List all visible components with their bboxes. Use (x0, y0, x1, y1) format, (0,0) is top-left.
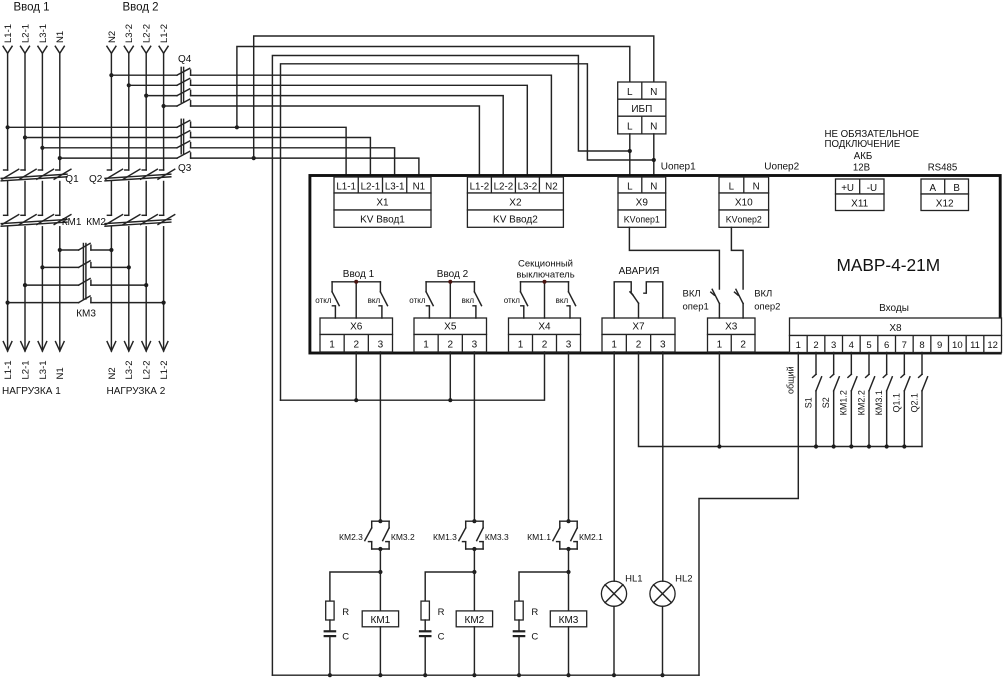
wire X5-2 drop (449, 352, 451, 400)
svg-text:A: A (930, 183, 937, 194)
wire Uoper-L riser (rail to X9-L) (272, 56, 629, 676)
svg-text:-U: -U (867, 183, 877, 194)
svg-text:R: R (342, 607, 349, 618)
switch Q4 pole 2 blade (177, 79, 190, 86)
switch VKL oper1 blade (712, 289, 719, 303)
svg-text:N2: N2 (107, 367, 118, 379)
svg-text:Q2: Q2 (89, 174, 103, 185)
switch Q4 pole 4 fixed contact (190, 101, 192, 106)
contactor KM3 pole 4 blade (79, 296, 91, 303)
lamp HL1 (601, 581, 626, 606)
switch S1 lower lead (815, 391, 817, 447)
junction L1-1 tap to Q3 (6, 125, 10, 129)
junction S2 / bus446 (832, 444, 836, 448)
wire interlock to coil КМ2 tee (473, 549, 475, 572)
svg-text:1: 1 (717, 339, 723, 350)
wire Q2 pole N2 to KM2 (110, 182, 112, 216)
svg-text:Ввод 2: Ввод 2 (122, 2, 158, 14)
switch Q3 pole 1 fixed contact (190, 122, 192, 127)
feeder arrow L1-2 (159, 46, 168, 53)
contact КМ1.3 blade (459, 528, 466, 541)
svg-text:L2-2: L2-2 (142, 360, 153, 379)
junction L3-2 tap to Q4 (127, 83, 131, 87)
svg-text:L3-2: L3-2 (518, 181, 538, 192)
svg-text:4: 4 (849, 340, 854, 351)
contact КМ2.1 seat (574, 541, 577, 543)
wire KM3 row 2 to bus2 (91, 266, 129, 268)
wire feeder N2 down to Q2 (110, 53, 112, 170)
switch S1 blade (816, 377, 822, 391)
junction interlock bottom КМ3.3 (472, 547, 476, 551)
selector Vvod2 common dot (448, 280, 452, 284)
breaker Q2 linkage (105, 174, 171, 178)
switch Q3 pole 2 fixed contact (190, 132, 192, 137)
wire X-3 drop to interlock КМ1.3/КМ3.3 (473, 352, 475, 521)
breaker Q2 poles (107, 169, 111, 171)
junction coil КМ2 / rail (472, 673, 476, 677)
wire tee to RC branch КМ1 (330, 572, 381, 601)
svg-text:КМ3: КМ3 (559, 615, 579, 626)
svg-text:вкл: вкл (368, 296, 381, 305)
svg-text:L: L (627, 181, 633, 192)
svg-text:Q1.1: Q1.1 (892, 393, 902, 413)
svg-text:N1: N1 (55, 367, 66, 379)
svg-text:откл: откл (315, 296, 332, 305)
svg-text:12В: 12В (853, 162, 870, 173)
svg-text:RS485: RS485 (928, 162, 958, 173)
wire N1 tap to Q3 pole 4 (60, 157, 177, 159)
switch Q3 pole 1 blade (177, 121, 190, 128)
wire R to C (КМ3) (518, 620, 520, 630)
wire interlock to coil КМ1 tee (379, 549, 381, 572)
svg-text:вкл: вкл (462, 296, 475, 305)
svg-text:КМ3: КМ3 (76, 309, 96, 320)
switch Q2.1 upper lead (921, 353, 923, 375)
coil КМ1 (362, 611, 398, 627)
svg-text:X7: X7 (632, 322, 645, 333)
junction interlock top КМ1.1 (566, 519, 570, 523)
switch Q1.1 blade (904, 377, 910, 391)
svg-text:L3-1: L3-1 (38, 360, 49, 379)
svg-text:L1-1: L1-1 (336, 181, 356, 192)
svg-text:ПОДКЛЮЧЕНИЕ: ПОДКЛЮЧЕНИЕ (825, 139, 901, 150)
wire Q1 pole N1 to KM1 (59, 182, 61, 216)
svg-text:L2-1: L2-1 (361, 181, 381, 192)
svg-text:выключатель: выключатель (516, 269, 574, 280)
svg-text:Q1: Q1 (65, 174, 79, 185)
wire C to rail (КМ1) (329, 637, 331, 675)
svg-text:N: N (753, 181, 760, 192)
junction interlock bottom КМ3.2 (378, 547, 382, 551)
svg-text:6: 6 (884, 340, 889, 351)
svg-text:11: 11 (970, 340, 980, 351)
junction КМ2.2 / bus446 (867, 444, 871, 448)
junction Q3 out N1 / UPS-N riser (252, 156, 256, 160)
junction RC / rail (КМ2) (423, 673, 427, 677)
wire X4-2 drop + common bus (281, 352, 545, 400)
switch Q4 pole 2 fixed contact (190, 80, 192, 85)
svg-text:МАВР-4-21М: МАВР-4-21М (836, 255, 940, 275)
svg-text:2: 2 (636, 339, 642, 350)
junction RC tee КМ2 (472, 570, 476, 574)
svg-text:B: B (953, 183, 960, 194)
svg-text:2: 2 (740, 339, 746, 350)
wire L1-1 riser to UPS input L (237, 47, 630, 128)
junction UPS-L / riser (628, 149, 632, 153)
terminal X10 (KVoper2) boxes (719, 177, 769, 193)
wire X3-1 drop (718, 352, 720, 447)
svg-text:КМ3.1: КМ3.1 (874, 390, 884, 415)
wire feeder L2-2 down to Q2 (145, 53, 147, 170)
svg-text:Uопер1: Uопер1 (661, 162, 696, 173)
junction RC tee КМ3 (566, 570, 570, 574)
junction N1 tap to Q3 (58, 156, 62, 160)
resistor R (КМ2 snubber) (421, 601, 429, 620)
svg-text:1: 1 (423, 339, 429, 350)
svg-text:X11: X11 (851, 199, 868, 210)
terminal X3 boxes (708, 318, 756, 335)
svg-text:L1-2: L1-2 (159, 360, 170, 379)
junction RC / rail (КМ3) (517, 673, 521, 677)
breaker Q1 poles (4, 169, 8, 171)
junction UPS-N / riser (Uoper1) (652, 158, 656, 162)
wire L3-2 tap to Q4 pole 2 (129, 84, 177, 86)
switch Q3 pole 2 blade (177, 131, 190, 138)
svg-text:L2-2: L2-2 (142, 24, 153, 43)
switch КМ2.2 lower lead (868, 391, 870, 447)
junction Q3 out L1-1 / UPS-L riser (235, 125, 239, 129)
junction interlock bottom КМ2.1 (566, 547, 570, 551)
svg-text:КМ2: КМ2 (465, 615, 485, 626)
svg-text:N2: N2 (545, 181, 558, 192)
wire coil КМ1 to rail (379, 627, 381, 675)
capacitor C (КМ3 snubber) (513, 630, 526, 632)
svg-text:откл: откл (504, 296, 521, 305)
switch Q3 pole 3 blade (177, 141, 190, 148)
svg-text:вкл: вкл (556, 296, 569, 305)
svg-text:KVопер2: KVопер2 (726, 215, 762, 225)
junction bus2 / KM3 row 4 (162, 301, 166, 305)
selector switch sectional (to X4) (521, 281, 569, 283)
svg-text:ИБП: ИБП (631, 104, 652, 115)
svg-text:АКБ: АКБ (854, 151, 872, 162)
svg-text:КМ1.3: КМ1.3 (433, 532, 457, 542)
wire bus1 to KM3 row 3 (25, 284, 79, 286)
svg-text:C: C (342, 632, 349, 643)
svg-text:X1: X1 (376, 198, 389, 209)
terminal X1 (KV Vvod1) boxes (334, 177, 431, 193)
load arrow N1 (56, 342, 65, 351)
capacitor C (КМ1 snubber) (324, 630, 337, 632)
switch КМ1.2 lower lead (850, 391, 852, 447)
svg-text:X6: X6 (350, 322, 363, 333)
junction coil КМ1 / rail (378, 673, 382, 677)
switch Q1.1 lower lead (903, 391, 905, 447)
wire X-3 drop to interlock КМ1.1/КМ2.1 (568, 352, 570, 521)
switch Q2.1 lower lead (921, 391, 923, 447)
load arrow L3-1 (38, 342, 47, 351)
feeder arrow L1-1 (3, 46, 12, 53)
svg-text:Q3: Q3 (178, 163, 192, 174)
junction interlock top КМ1.3 (472, 519, 476, 523)
wire tee to RC branch КМ3 (519, 572, 569, 601)
junction bus1 / KM3 row 2 (40, 265, 44, 269)
junction L3-1 tap to Q3 (40, 146, 44, 150)
contact КМ2.3 blade (365, 528, 372, 541)
svg-text:7: 7 (902, 340, 907, 351)
wire interlock to coil КМ3 tee (568, 549, 570, 572)
svg-text:L: L (627, 122, 633, 133)
svg-text:C: C (531, 632, 538, 643)
contactor KM3 pole 4 fixed contact (90, 298, 92, 303)
svg-text:3: 3 (566, 339, 572, 350)
svg-text:5: 5 (866, 340, 871, 351)
svg-text:L: L (627, 87, 633, 98)
svg-text:X2: X2 (509, 198, 522, 209)
svg-text:КМ1: КМ1 (371, 615, 391, 626)
svg-text:KV Ввод1: KV Ввод1 (360, 215, 405, 226)
svg-text:9: 9 (937, 340, 942, 351)
junction L1-2 tap to Q4 (162, 104, 166, 108)
svg-text:Q4: Q4 (178, 54, 192, 65)
svg-text:L: L (729, 181, 735, 192)
terminal X2 (KV Vvod2) boxes (467, 177, 563, 193)
wire N2 tap to Q4 pole 1 (111, 74, 177, 76)
contactor KM3 pole 3 fixed contact (90, 280, 92, 285)
wire VKL oper2 to X3-2 (742, 304, 744, 319)
wire coil КМ2 to rail (473, 627, 475, 675)
contactor KM3 pole 1 blade (79, 243, 91, 250)
wire feeder N1 down to Q1 (59, 53, 61, 170)
wire feeder L1-2 down to Q2 (163, 53, 165, 170)
wire bus2 N2 to load (110, 227, 112, 351)
svg-text:1: 1 (611, 339, 617, 350)
contact КМ3.3 blade (477, 528, 483, 541)
wire N1 riser to UPS input N (254, 36, 654, 158)
svg-text:HL1: HL1 (625, 574, 642, 585)
switch КМ1.2 blade (851, 377, 857, 391)
switch Q3 pole 3 fixed contact (190, 143, 192, 148)
switch Q4 pole 4 blade (177, 99, 190, 106)
wire bus1 L1-1 to load (7, 227, 9, 351)
svg-text:L1-1: L1-1 (3, 24, 14, 43)
contact КМ1.1 / КМ2.1 frame bottom (559, 542, 561, 549)
svg-text:ВКЛ: ВКЛ (754, 289, 772, 300)
svg-text:АВАРИЯ: АВАРИЯ (619, 266, 660, 277)
svg-text:X4: X4 (538, 322, 551, 333)
switch КМ3.1 blade (887, 377, 893, 391)
breaker Q1 linkage (1, 174, 67, 178)
svg-text:общий: общий (786, 366, 796, 394)
contactor KM3 pole 2 blade (79, 261, 91, 268)
junction bus1 / KM3 row 1 (58, 248, 62, 252)
contact КМ1.1 blade (553, 528, 560, 541)
switch Q4 pole 3 fixed contact (190, 90, 192, 95)
switch Q3 pole 4 blade (177, 151, 190, 158)
svg-text:X12: X12 (936, 199, 954, 210)
contact КМ2.1 blade (571, 528, 577, 541)
svg-text:HL2: HL2 (675, 574, 692, 585)
controller MAVR-4-21M outline (310, 176, 1000, 354)
svg-text:опер2: опер2 (754, 302, 780, 313)
svg-text:X9: X9 (636, 198, 649, 209)
contact КМ2.3 / КМ3.2 frame top (372, 520, 389, 522)
svg-text:опер1: опер1 (683, 302, 709, 313)
svg-text:L3-2: L3-2 (124, 24, 135, 43)
contactor KM3 pole 2 fixed contact (90, 263, 92, 268)
wire UPS out L to X9-L (629, 134, 631, 177)
coil КМ3 (550, 611, 586, 627)
wire KM3 row 1 to bus2 (91, 249, 112, 251)
svg-text:R: R (531, 607, 538, 618)
svg-text:КМ3.3: КМ3.3 (485, 532, 509, 542)
junction HL1 / rail (612, 673, 616, 677)
wire bus2 L3-2 to load (128, 227, 130, 351)
coil КМ2 (456, 611, 492, 627)
switch Q2.1 blade (922, 377, 928, 391)
switch КМ3.1 lower lead (886, 391, 888, 447)
wire Q2 pole L1-2 to KM2 (163, 182, 165, 216)
svg-text:КМ2.1: КМ2.1 (579, 532, 603, 542)
load arrow L1-2 (159, 342, 168, 351)
contactor KM1 linkage (1, 220, 67, 224)
contact AVARIA moving lead (638, 303, 640, 318)
wire Q1 pole L1-1 to KM1 (7, 182, 9, 216)
selector Vvod1 common dot (354, 280, 358, 284)
wire R to C (КМ2) (424, 620, 426, 630)
wire Q4 pole 4 out to X2 terminal (191, 106, 480, 177)
junction КМ3.1 / bus446 (885, 444, 889, 448)
wire Uoper rail (bottom) (272, 674, 699, 676)
svg-text:N1: N1 (55, 31, 66, 43)
svg-text:2: 2 (813, 340, 818, 351)
svg-text:КМ1.1: КМ1.1 (527, 532, 551, 542)
contactor KM3 linkage (82, 244, 84, 300)
wire feeder L3-2 down to Q2 (128, 53, 130, 170)
wire coil КМ3 to rail (568, 627, 570, 675)
wire L1-1 tap to Q3 pole 1 (8, 126, 177, 128)
contact КМ1.3 / КМ3.3 frame bottom (465, 542, 467, 549)
svg-text:L1-2: L1-2 (470, 181, 490, 192)
junction bus1 / KM3 row 4 (6, 301, 10, 305)
contactor KM2 poles (107, 214, 111, 216)
contact КМ1.1 seat (557, 541, 560, 543)
junction X3-1 / bus446 (717, 444, 721, 448)
svg-text:8: 8 (919, 340, 924, 351)
wire feeder L2-1 down to Q1 (24, 53, 26, 170)
svg-text:KV Ввод2: KV Ввод2 (493, 215, 538, 226)
wire C to rail (КМ2) (424, 637, 426, 675)
junction КМ1.2 / bus446 (849, 444, 853, 448)
contact КМ1.3 / КМ3.3 frame top (466, 520, 483, 522)
junction Q1.1 / bus446 (902, 444, 906, 448)
svg-text:3: 3 (660, 339, 666, 350)
feeder arrow L3-2 (124, 46, 133, 53)
wire bus1 to KM3 row 4 (8, 302, 79, 304)
svg-text:КМ3.2: КМ3.2 (391, 532, 415, 542)
contactor KM3 pole 3 blade (79, 279, 91, 286)
svg-text:Ввод 1: Ввод 1 (13, 2, 49, 14)
contact КМ2.3 / КМ3.2 frame bottom (371, 542, 373, 549)
svg-text:L3-2: L3-2 (124, 360, 135, 379)
svg-text:L2-1: L2-1 (20, 24, 31, 43)
wire X-3 drop to interlock КМ2.3/КМ3.2 (379, 352, 381, 521)
wire Q4 pole 2 out to X2 terminal (191, 85, 528, 177)
terminal X5 boxes (414, 318, 487, 335)
svg-text:2: 2 (447, 339, 453, 350)
contactor KM3 pole 1 fixed contact (90, 245, 92, 250)
svg-text:Q2.1: Q2.1 (909, 393, 919, 413)
selector switch Vvod1 (to X6) (332, 281, 380, 283)
svg-text:N: N (650, 122, 657, 133)
junction RC tee КМ1 (378, 570, 382, 574)
junction bus2 / KM3 row 3 (144, 283, 148, 287)
svg-text:ВКЛ: ВКЛ (683, 289, 701, 300)
selector sectional common dot (543, 280, 547, 284)
svg-text:R: R (438, 607, 445, 618)
junction coil КМ3 / rail (566, 673, 570, 677)
terminal X11 (battery 12V) boxes (836, 179, 885, 194)
svg-text:12: 12 (987, 340, 998, 351)
wire L2-1 tap to Q3 pole 2 (25, 137, 177, 139)
selector switch Vvod2 (to X5) (426, 281, 474, 283)
wire tee to coil КМ3 (568, 572, 570, 611)
wire HL2 to rail (662, 606, 664, 675)
svg-text:КМ1: КМ1 (62, 217, 82, 228)
wire Q1 pole L3-1 to KM1 (41, 182, 43, 216)
wire Q4 pole 3 out to X2 terminal (191, 96, 504, 177)
contact AVARIA right loop (644, 282, 663, 318)
wire bus2 L1-2 to load (163, 227, 165, 351)
wire R to C (КМ1) (329, 620, 331, 630)
svg-text:L3-1: L3-1 (38, 24, 49, 43)
switch КМ2.2 upper lead (868, 353, 870, 375)
junction S1 / bus446 (814, 444, 818, 448)
wire Uoper-N riser (bus to X9-N) (281, 64, 654, 400)
svg-text:КМ2: КМ2 (86, 217, 106, 228)
svg-text:N: N (650, 181, 657, 192)
switch КМ3.1 upper lead (886, 353, 888, 375)
junction HL2 / rail (660, 673, 664, 677)
svg-text:L1-1: L1-1 (3, 360, 14, 379)
contactor KM1 poles (4, 214, 8, 216)
contact AVARIA blade (630, 292, 633, 295)
wire feeder L1-1 down to Q1 (7, 53, 9, 170)
wire tee to coil КМ1 (379, 572, 381, 611)
wire bus1 L3-1 to load (41, 227, 43, 351)
wire L3-1 tap to Q3 pole 3 (42, 147, 177, 149)
switch S1 upper lead (815, 353, 817, 375)
junction bus1 / KM3 row 3 (23, 283, 27, 287)
switch S2 blade (834, 377, 840, 391)
wire X6-2 drop (355, 352, 357, 400)
contact КМ3.2 seat (386, 541, 389, 543)
terminal X8 boxes (790, 318, 1002, 336)
wire bus1 L2-1 to load (24, 227, 26, 351)
wire UPS out N to X9-N (653, 134, 655, 177)
svg-text:КМ1.2: КМ1.2 (839, 390, 849, 415)
load arrow L2-1 (21, 342, 30, 351)
feeder arrow L2-1 (21, 46, 30, 53)
svg-text:2: 2 (353, 339, 359, 350)
svg-text:X10: X10 (735, 198, 753, 209)
svg-text:Ввод 1: Ввод 1 (343, 269, 375, 280)
svg-text:НАГРУЗКА 1: НАГРУЗКА 1 (2, 386, 61, 397)
wire Q3 pole 4 out to X1 terminal (191, 158, 419, 177)
wire X9 to VKL oper1 (629, 227, 719, 289)
contactor KM2 linkage (105, 220, 171, 224)
svg-text:N2: N2 (107, 31, 118, 43)
